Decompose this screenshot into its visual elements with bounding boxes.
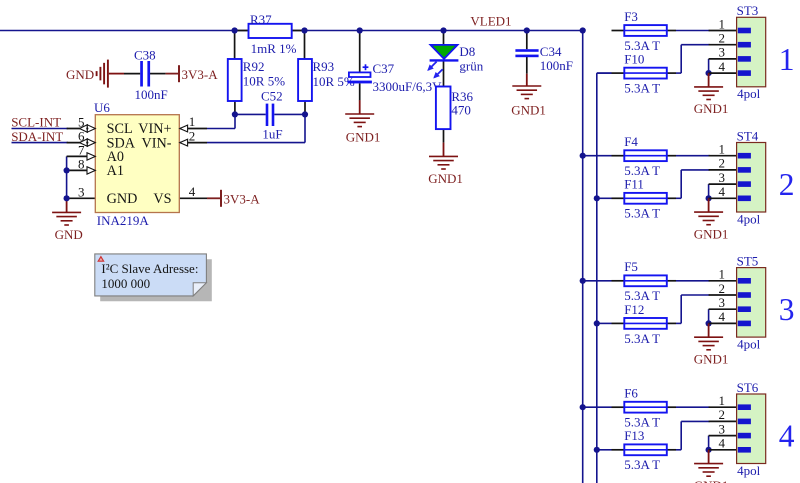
svg-text:INA219A: INA219A bbox=[97, 213, 150, 228]
svg-text:GND1: GND1 bbox=[511, 102, 546, 117]
svg-text:F4: F4 bbox=[624, 134, 638, 149]
svg-text:VIN-: VIN- bbox=[142, 135, 172, 151]
svg-text:4: 4 bbox=[719, 184, 726, 199]
svg-text:VS: VS bbox=[153, 191, 171, 207]
svg-text:A1: A1 bbox=[107, 163, 124, 179]
svg-text:4pol: 4pol bbox=[737, 211, 761, 226]
svg-text:GND: GND bbox=[55, 227, 83, 242]
svg-text:5.3A T: 5.3A T bbox=[624, 81, 660, 96]
svg-text:3: 3 bbox=[779, 292, 795, 327]
svg-text:3: 3 bbox=[719, 295, 726, 310]
svg-text:1: 1 bbox=[719, 16, 726, 31]
svg-text:ST4: ST4 bbox=[737, 128, 759, 143]
svg-text:1: 1 bbox=[189, 114, 196, 129]
svg-text:ST6: ST6 bbox=[737, 380, 759, 395]
svg-text:470: 470 bbox=[451, 102, 471, 117]
svg-text:3V3-A: 3V3-A bbox=[182, 67, 219, 82]
svg-text:4: 4 bbox=[719, 436, 726, 451]
svg-text:3: 3 bbox=[719, 421, 726, 436]
svg-text:C34: C34 bbox=[540, 44, 562, 59]
svg-text:4: 4 bbox=[189, 184, 196, 199]
svg-text:3: 3 bbox=[719, 170, 726, 185]
svg-text:I²C Slave Adresse:: I²C Slave Adresse: bbox=[101, 261, 198, 276]
svg-text:VLED1: VLED1 bbox=[470, 14, 511, 29]
svg-text:3300uF/6,3V: 3300uF/6,3V bbox=[373, 79, 443, 94]
svg-text:10R 5%: 10R 5% bbox=[243, 74, 285, 89]
svg-text:100nF: 100nF bbox=[135, 87, 168, 102]
svg-text:ST5: ST5 bbox=[737, 254, 759, 269]
svg-text:R93: R93 bbox=[313, 59, 335, 74]
svg-text:1mR 1%: 1mR 1% bbox=[251, 41, 297, 56]
svg-text:2: 2 bbox=[719, 281, 726, 296]
svg-text:2: 2 bbox=[719, 156, 726, 171]
svg-text:GND1: GND1 bbox=[694, 226, 729, 241]
svg-text:F13: F13 bbox=[624, 428, 644, 443]
svg-text:1000 000: 1000 000 bbox=[101, 276, 150, 291]
svg-text:2: 2 bbox=[719, 31, 726, 46]
svg-text:GND1: GND1 bbox=[428, 171, 463, 186]
svg-text:4: 4 bbox=[779, 419, 795, 454]
svg-text:100nF: 100nF bbox=[540, 58, 573, 73]
svg-text:3: 3 bbox=[719, 45, 726, 60]
svg-text:D8: D8 bbox=[459, 44, 475, 59]
svg-text:SDA-INT: SDA-INT bbox=[11, 129, 63, 144]
svg-text:C38: C38 bbox=[134, 48, 156, 63]
svg-text:3V3-A: 3V3-A bbox=[224, 191, 261, 206]
svg-text:2: 2 bbox=[779, 167, 795, 202]
svg-text:GND1: GND1 bbox=[694, 478, 729, 483]
svg-text:1: 1 bbox=[779, 42, 795, 77]
svg-text:2: 2 bbox=[719, 407, 726, 422]
svg-text:R92: R92 bbox=[243, 59, 265, 74]
svg-text:GND: GND bbox=[107, 191, 138, 207]
svg-text:C52: C52 bbox=[261, 88, 283, 103]
svg-text:3: 3 bbox=[78, 184, 85, 199]
svg-text:F5: F5 bbox=[624, 259, 638, 274]
svg-text:U6: U6 bbox=[94, 100, 110, 115]
svg-text:1: 1 bbox=[719, 393, 726, 408]
svg-text:R37: R37 bbox=[250, 12, 272, 27]
svg-text:4pol: 4pol bbox=[737, 86, 761, 101]
svg-text:4pol: 4pol bbox=[737, 463, 761, 478]
svg-text:GND: GND bbox=[66, 67, 94, 82]
svg-text:grün: grün bbox=[459, 58, 483, 73]
svg-text:GND1: GND1 bbox=[346, 130, 381, 145]
svg-text:8: 8 bbox=[78, 157, 85, 172]
svg-text:F11: F11 bbox=[624, 177, 644, 192]
svg-text:5.3A T: 5.3A T bbox=[624, 457, 660, 472]
svg-text:1: 1 bbox=[719, 267, 726, 282]
svg-text:SCL-INT: SCL-INT bbox=[11, 115, 61, 130]
svg-text:F12: F12 bbox=[624, 302, 644, 317]
svg-text:1uF: 1uF bbox=[262, 126, 282, 141]
svg-text:1: 1 bbox=[719, 142, 726, 157]
svg-text:4pol: 4pol bbox=[737, 336, 761, 351]
svg-text:4: 4 bbox=[719, 309, 726, 324]
svg-text:C37: C37 bbox=[373, 61, 395, 76]
svg-text:2: 2 bbox=[189, 128, 196, 143]
svg-text:F3: F3 bbox=[624, 9, 638, 24]
svg-text:F10: F10 bbox=[624, 52, 644, 67]
svg-text:5.3A T: 5.3A T bbox=[624, 331, 660, 346]
svg-text:5.3A T: 5.3A T bbox=[624, 206, 660, 221]
svg-text:F6: F6 bbox=[624, 386, 638, 401]
svg-text:4: 4 bbox=[719, 59, 726, 74]
svg-text:GND1: GND1 bbox=[694, 351, 729, 366]
svg-text:ST3: ST3 bbox=[737, 3, 759, 18]
svg-text:GND1: GND1 bbox=[694, 101, 729, 116]
